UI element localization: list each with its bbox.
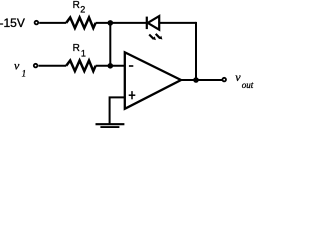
op-amp U1 (125, 52, 181, 109)
wire op-amp output (181, 79, 222, 81)
wire node A down to node B (109, 23, 111, 66)
terminal -15V input (35, 21, 39, 25)
LED D1 light arrow 1 (149, 35, 156, 41)
LED D1 light arrow 2 (156, 34, 163, 40)
wire R2 to node A (96, 22, 147, 24)
wire plus input (110, 97, 125, 123)
terminal v_out (222, 78, 226, 82)
op-amp U1 minus input label (129, 65, 133, 67)
node A junction dot (108, 20, 114, 26)
node C junction dot (193, 77, 199, 83)
svg-text:1: 1 (22, 69, 27, 79)
wire terminal to R2 (39, 22, 66, 24)
ground top bar (96, 123, 125, 125)
op-amp U1 plus input label (129, 91, 136, 99)
svg-text:out: out (242, 80, 254, 90)
LED D1 cathode bar (146, 17, 148, 30)
svg-text:-15V: -15V (0, 16, 25, 30)
svg-text:R: R (73, 43, 80, 54)
wire LED to top-right corner (159, 22, 196, 24)
resistor R1 (66, 61, 95, 72)
node B junction dot (108, 63, 114, 69)
svg-text:v: v (14, 58, 20, 72)
terminal v1 input (34, 64, 38, 68)
wire R1 to node B (96, 65, 125, 67)
svg-text:1: 1 (81, 49, 86, 59)
svg-text:v: v (235, 70, 241, 84)
ground bottom bar (100, 126, 119, 128)
wire feedback vertical (195, 22, 197, 80)
resistor R2 (66, 18, 95, 29)
LED D1 triangle (148, 16, 160, 30)
wire terminal to R1 (39, 65, 67, 67)
svg-text:2: 2 (80, 4, 85, 14)
svg-text:R: R (73, 0, 80, 11)
